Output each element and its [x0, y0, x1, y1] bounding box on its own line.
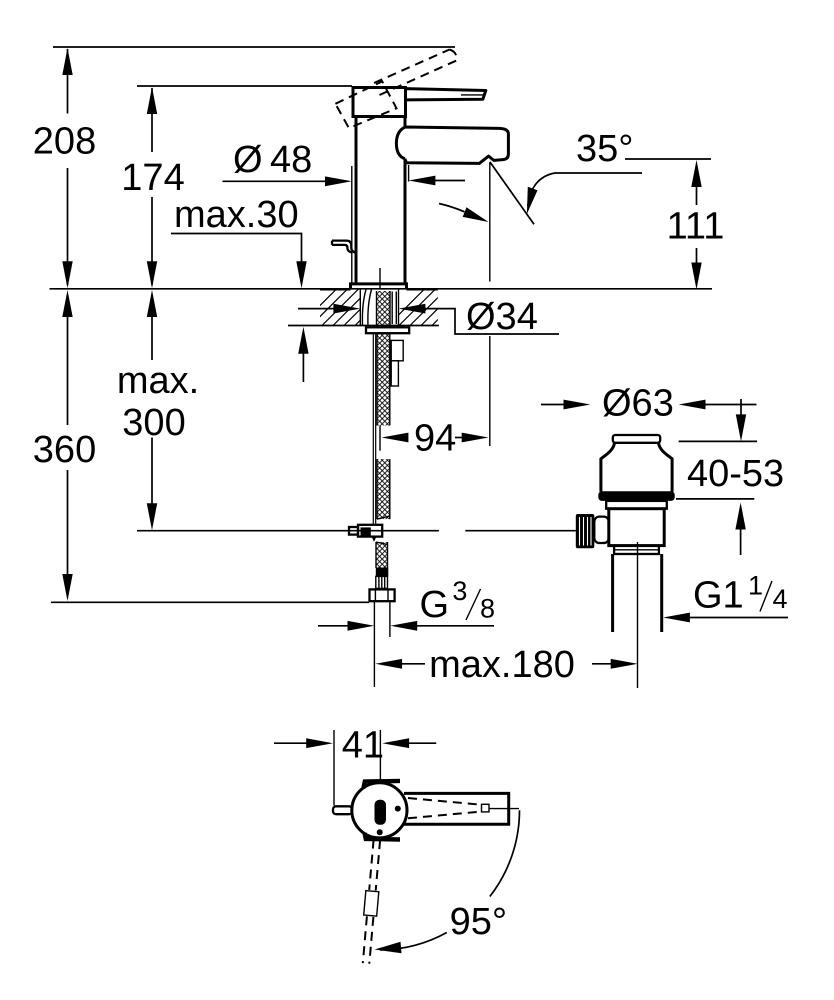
extension line right of body	[408, 165, 410, 182]
handle lever solid	[406, 89, 486, 100]
max30 down arrow	[296, 261, 306, 288]
dim max300 vertical line	[151, 315, 153, 504]
sleeve line in hole	[392, 292, 396, 325]
plan rod stub	[333, 806, 352, 814]
faucet body left edge	[355, 117, 358, 284]
counter slab hatching left	[300, 289, 392, 326]
svg-text:41: 41	[342, 725, 384, 767]
plan lever cross-section	[375, 800, 387, 825]
plan dashed rod rotated	[360, 839, 384, 964]
hose axis reference line	[373, 640, 375, 687]
drain tailpipe	[613, 554, 662, 632]
handle cap solid	[353, 88, 406, 117]
svg-text:Ø63: Ø63	[602, 383, 674, 425]
dim 174 vertical line	[151, 88, 153, 285]
rod tee fitting	[358, 525, 382, 537]
svg-text:max.: max.	[117, 360, 199, 402]
svg-text:8: 8	[480, 594, 495, 624]
pop-up rod horizontal linkage and max300 bottom reference	[137, 530, 576, 532]
spout angle diagonal line	[490, 162, 534, 225]
svg-text:Ø: Ø	[233, 139, 263, 181]
supply hose lower section	[377, 459, 390, 519]
dim G1-1/4 leader with arrow	[687, 617, 788, 619]
plan lever outline	[404, 793, 509, 824]
35deg leader line under text	[555, 172, 642, 174]
counter slab hatching right	[388, 289, 469, 326]
faucet centerline	[379, 268, 381, 289]
counter slab bottom line	[288, 325, 439, 327]
35deg dimension line right	[625, 158, 711, 160]
drain knob connector	[594, 517, 609, 543]
drain bell flange	[601, 443, 672, 492]
plan centerline vertical	[379, 730, 381, 782]
drain body shoulder	[606, 501, 667, 509]
svg-text:G1: G1	[693, 575, 744, 617]
95deg arc	[490, 810, 520, 896]
mounting stud bracket	[391, 340, 403, 360]
dim G3/8 arrows	[318, 625, 349, 627]
plan left extension line	[333, 730, 335, 806]
dim 208 vertical line	[67, 49, 69, 285]
supply hose upper section	[377, 333, 390, 425]
plan escutcheon corner top	[364, 781, 401, 788]
drain plug cap	[613, 435, 660, 443]
handle cap raised dashed	[335, 81, 396, 128]
threaded shank in hole	[377, 291, 391, 327]
hole right wall	[398, 289, 400, 326]
svg-text:max.30: max.30	[174, 194, 299, 236]
plan centerline to arc	[489, 808, 519, 810]
svg-text:48: 48	[270, 139, 312, 181]
countertop reference line	[50, 288, 713, 290]
drain valve body	[609, 509, 664, 546]
hose curves in hole	[362, 290, 371, 326]
spout outlet vertical reference line	[489, 163, 491, 446]
max30 lower extension and up arrow	[302, 353, 304, 382]
drain slip ring	[614, 546, 659, 554]
tee bottom tab	[372, 537, 377, 542]
small arc with arrow at spout	[439, 204, 465, 212]
svg-text:174: 174	[121, 157, 184, 199]
dim line 174 top reference	[137, 85, 352, 87]
dim diameter34 arrows	[298, 308, 349, 310]
svg-text:1: 1	[748, 571, 763, 601]
svg-text:95°: 95°	[450, 901, 507, 943]
locknut flange below counter	[366, 327, 409, 333]
svg-text:300: 300	[122, 402, 185, 444]
plan screw dots	[395, 806, 401, 812]
dim 94 arrows	[382, 433, 409, 443]
pop-up rod below counter	[373, 333, 375, 525]
svg-text:4: 4	[773, 584, 788, 614]
svg-text:35°: 35°	[576, 128, 633, 170]
dim diameter63 arrows	[541, 404, 564, 406]
rod end cap	[349, 527, 358, 535]
hose thread tube	[374, 601, 390, 640]
plan body circle	[352, 783, 407, 838]
drain side knob knurled	[576, 514, 595, 548]
35deg arc with arrow	[528, 173, 555, 206]
dim 40-53 lower reference line	[676, 498, 754, 500]
faucet body right edge	[404, 117, 407, 284]
hose end knurl	[376, 568, 389, 577]
dim max180 left arrow	[375, 659, 402, 669]
bottom reference line 360	[51, 601, 369, 603]
dim 40-53 arrows	[740, 399, 742, 417]
dim line 208 top reference	[53, 46, 455, 48]
diameter34 leader elbow and underline	[451, 309, 559, 334]
dim max180 right arrow	[592, 663, 612, 665]
dim 111 vertical with arrows	[696, 186, 698, 263]
dim line diameter48 right with arrow	[418, 180, 465, 182]
dim 208 arrows	[62, 48, 72, 75]
svg-text:3: 3	[452, 576, 467, 606]
svg-text:Ø34: Ø34	[466, 296, 538, 338]
svg-text:max.180: max.180	[429, 644, 575, 686]
dim 40-53 upper reference line	[679, 440, 757, 442]
svg-text:111: 111	[667, 206, 725, 248]
dim line diameter48 left with arrow	[223, 180, 341, 182]
95deg arc arrowhead	[375, 942, 402, 953]
plan escutcheon corner bottom	[365, 833, 401, 840]
dim 360 vertical line	[67, 315, 69, 575]
supply hose below tee	[376, 542, 388, 568]
dim 41 arrows	[274, 742, 307, 744]
svg-text:94: 94	[414, 418, 456, 460]
spout outline	[396, 127, 508, 163]
plan lever dashed taper	[408, 798, 482, 818]
handle lever raised dashed	[374, 50, 457, 96]
drain rubber gasket	[598, 491, 674, 501]
svg-text:40-53: 40-53	[687, 453, 784, 495]
drain centerline	[637, 542, 639, 688]
pop-up rod knob hook	[332, 241, 356, 253]
dim 174 arrows	[147, 87, 157, 114]
svg-text:208: 208	[33, 121, 96, 163]
svg-text:360: 360	[33, 429, 96, 471]
faucet base flange	[351, 284, 407, 289]
extension line left of body	[351, 166, 353, 284]
hose end ribs	[376, 576, 388, 588]
svg-text:G: G	[420, 584, 450, 626]
dim 360 arrows	[62, 290, 72, 317]
hose nut G3/8	[370, 589, 395, 601]
dim max300 arrows	[147, 290, 157, 317]
centerline in hose gap	[379, 426, 381, 451]
max30 underline leader	[171, 234, 302, 269]
counter slab thick top edges	[320, 288, 438, 290]
hole left wall	[359, 289, 361, 326]
